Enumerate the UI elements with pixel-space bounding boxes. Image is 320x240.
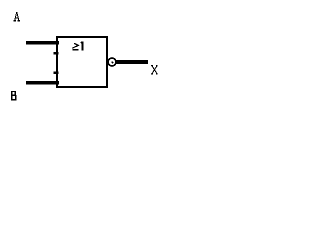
wire input B (26, 81, 59, 85)
node A label (14, 12, 20, 22)
wire output X (116, 60, 148, 64)
NOR gate schematic (IEC symbol) (0, 0, 166, 114)
bubble center dot (111, 61, 113, 63)
node X label (152, 66, 157, 74)
pin stub 3 (unconnected input) (54, 71, 59, 73)
or-gate U1 body (57, 37, 107, 87)
gate label &#8805;1 (72, 43, 78, 48)
inversion bubble (108, 58, 116, 66)
node B label (11, 91, 16, 101)
wire input A (26, 41, 59, 45)
pin stub 2 (unconnected input) (54, 52, 59, 54)
